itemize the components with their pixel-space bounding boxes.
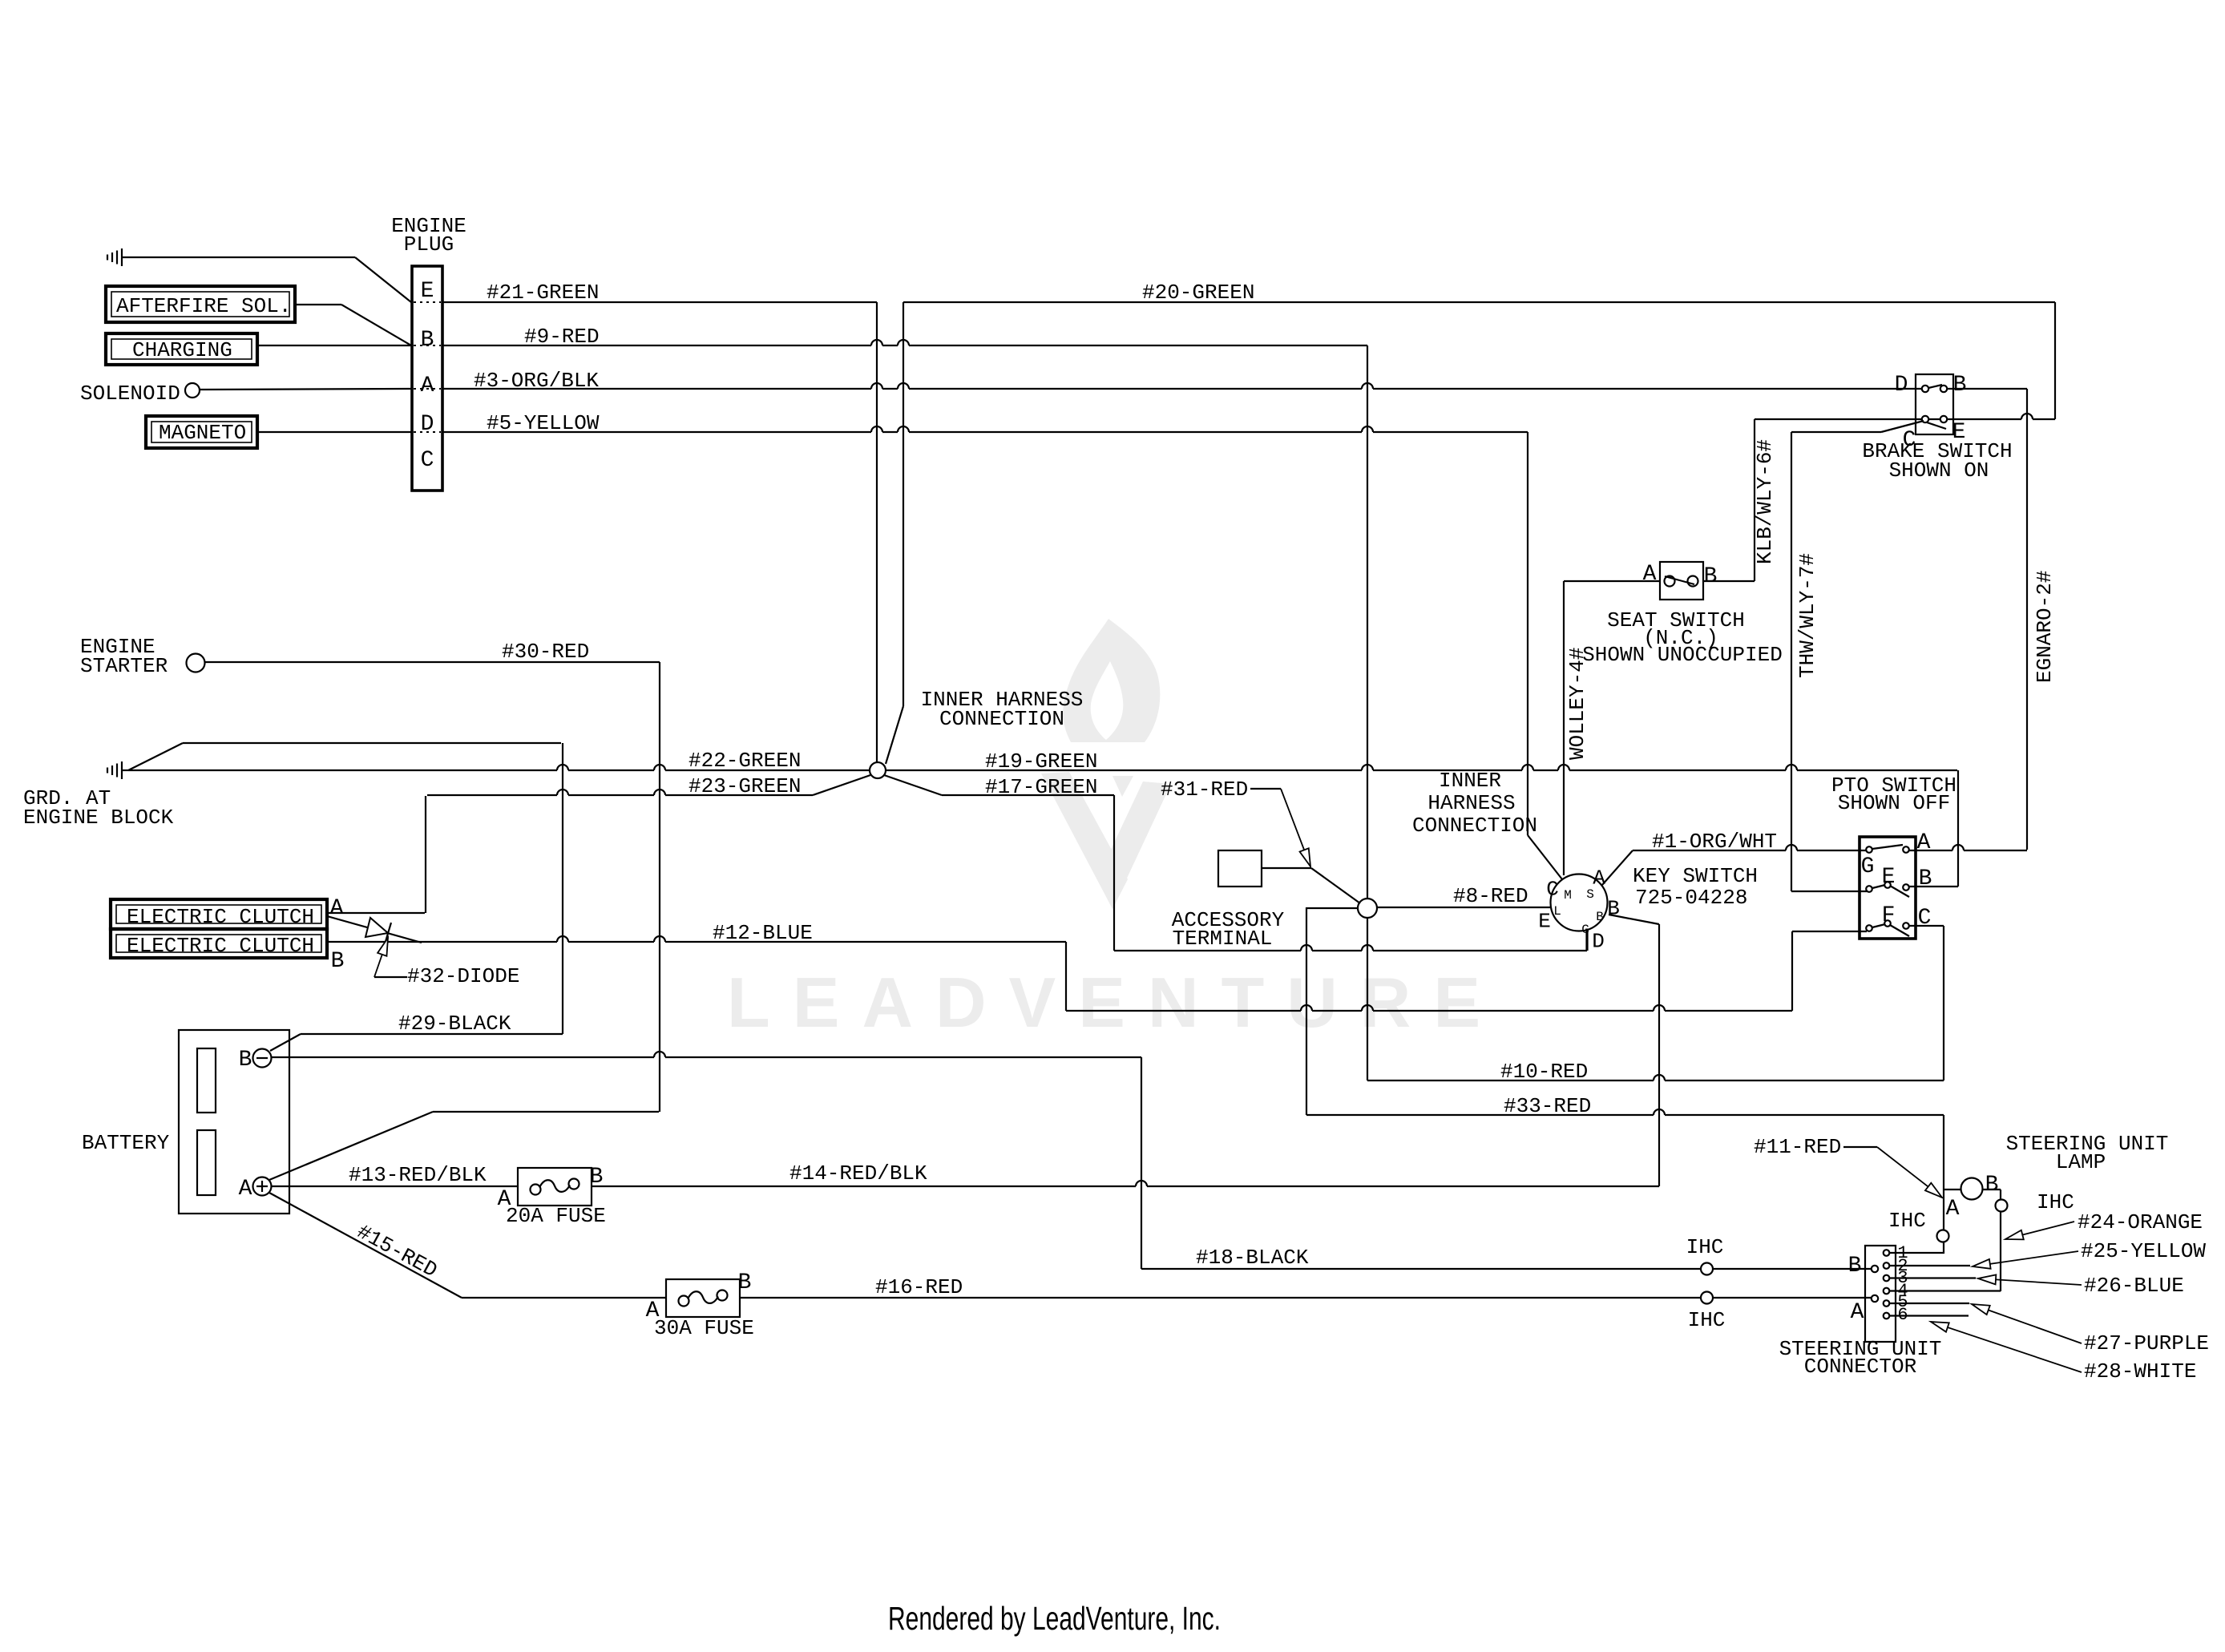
svg-text:E: E bbox=[1538, 909, 1551, 933]
svg-text:C: C bbox=[1918, 906, 1932, 931]
svg-text:D: D bbox=[1592, 929, 1605, 953]
svg-text:#21-GREEN: #21-GREEN bbox=[487, 281, 599, 305]
svg-text:A: A bbox=[239, 1177, 252, 1202]
svg-text:#17-GREEN: #17-GREEN bbox=[985, 775, 1097, 799]
svg-text:SHOWN OFF: SHOWN OFF bbox=[1838, 791, 1950, 815]
svg-text:G: G bbox=[1581, 923, 1589, 937]
svg-text:#27-PURPLE: #27-PURPLE bbox=[2084, 1331, 2209, 1355]
svg-text:AFTERFIRE SOL.: AFTERFIRE SOL. bbox=[116, 294, 291, 318]
svg-text:#19-GREEN: #19-GREEN bbox=[985, 749, 1097, 773]
svg-text:A: A bbox=[1917, 830, 1931, 855]
svg-text:B: B bbox=[1704, 564, 1718, 589]
svg-text:TERMINAL: TERMINAL bbox=[1173, 927, 1273, 951]
svg-text:D: D bbox=[421, 412, 434, 437]
svg-text:A: A bbox=[1946, 1197, 1960, 1222]
svg-text:20A FUSE: 20A FUSE bbox=[506, 1204, 606, 1228]
svg-text:B: B bbox=[239, 1048, 252, 1072]
svg-text:CONNECTION: CONNECTION bbox=[1412, 814, 1537, 838]
svg-text:IHC: IHC bbox=[1888, 1209, 1926, 1233]
svg-text:SHOWN ON: SHOWN ON bbox=[1889, 458, 1989, 483]
svg-text:A: A bbox=[330, 896, 344, 921]
svg-text:#5-YELLOW: #5-YELLOW bbox=[487, 411, 600, 435]
svg-text:A: A bbox=[1593, 866, 1605, 890]
svg-text:B: B bbox=[421, 328, 434, 353]
svg-text:#22-GREEN: #22-GREEN bbox=[688, 749, 801, 773]
svg-text:CONNECTOR: CONNECTOR bbox=[1804, 1355, 1916, 1379]
svg-text:#25-YELLOW: #25-YELLOW bbox=[2081, 1239, 2206, 1263]
svg-text:E: E bbox=[421, 279, 434, 304]
svg-text:THW/WLY-7#: THW/WLY-7# bbox=[1795, 553, 1819, 678]
svg-text:#29-BLACK: #29-BLACK bbox=[398, 1012, 511, 1036]
svg-text:#31-RED: #31-RED bbox=[1161, 778, 1248, 802]
svg-text:INNER: INNER bbox=[1439, 769, 1501, 793]
svg-text:A: A bbox=[498, 1187, 511, 1212]
svg-text:ELECTRIC CLUTCH: ELECTRIC CLUTCH bbox=[127, 934, 314, 958]
svg-text:WOLLEY-4#: WOLLEY-4# bbox=[1565, 648, 1589, 760]
svg-text:ELECTRIC CLUTCH: ELECTRIC CLUTCH bbox=[127, 905, 314, 929]
svg-text:C: C bbox=[1903, 428, 1916, 453]
svg-text:B: B bbox=[1953, 373, 1967, 398]
svg-text:#33-RED: #33-RED bbox=[1504, 1094, 1591, 1118]
svg-text:#12-BLUE: #12-BLUE bbox=[713, 921, 813, 945]
svg-text:#10-RED: #10-RED bbox=[1500, 1060, 1588, 1084]
svg-text:EGNARO-2#: EGNARO-2# bbox=[2033, 571, 2057, 683]
svg-text:#28-WHITE: #28-WHITE bbox=[2084, 1359, 2196, 1383]
svg-text:ENGINE BLOCK: ENGINE BLOCK bbox=[23, 806, 174, 830]
svg-text:#14-RED/BLK: #14-RED/BLK bbox=[789, 1161, 927, 1185]
svg-text:B: B bbox=[1848, 1254, 1862, 1278]
svg-text:IHC: IHC bbox=[1688, 1308, 1726, 1332]
svg-text:#3-ORG/BLK: #3-ORG/BLK bbox=[474, 369, 599, 393]
svg-text:30A FUSE: 30A FUSE bbox=[654, 1316, 754, 1340]
svg-text:B: B bbox=[331, 949, 345, 974]
svg-text:M: M bbox=[1564, 888, 1572, 903]
svg-text:LAMP: LAMP bbox=[2056, 1150, 2106, 1174]
svg-text:B: B bbox=[1596, 910, 1604, 924]
svg-text:LEADVENTURE: LEADVENTURE bbox=[727, 963, 1503, 1042]
svg-text:L: L bbox=[1553, 904, 1561, 919]
svg-text:#11-RED: #11-RED bbox=[1754, 1135, 1841, 1159]
svg-text:#24-ORANGE: #24-ORANGE bbox=[2078, 1210, 2203, 1234]
svg-text:KEY SWITCH: KEY SWITCH bbox=[1633, 864, 1758, 888]
svg-text:#32-DIODE: #32-DIODE bbox=[407, 964, 519, 988]
svg-text:#1-ORG/WHT: #1-ORG/WHT bbox=[1652, 830, 1777, 854]
svg-text:PLUG: PLUG bbox=[404, 232, 454, 256]
svg-text:SHOWN UNOCCUPIED: SHOWN UNOCCUPIED bbox=[1582, 643, 1783, 667]
svg-text:725-04228: 725-04228 bbox=[1635, 886, 1747, 910]
svg-text:#20-GREEN: #20-GREEN bbox=[1142, 281, 1254, 305]
svg-text:E: E bbox=[1882, 865, 1896, 890]
svg-text:SOLENOID: SOLENOID bbox=[80, 382, 180, 406]
svg-text:B: B bbox=[1919, 866, 1932, 891]
svg-text:#13-RED/BLK: #13-RED/BLK bbox=[349, 1163, 487, 1187]
svg-text:IHC: IHC bbox=[1686, 1235, 1724, 1259]
svg-text:#23-GREEN: #23-GREEN bbox=[688, 774, 801, 798]
svg-text:KLB/WLY-6#: KLB/WLY-6# bbox=[1753, 439, 1777, 564]
svg-text:B: B bbox=[1607, 896, 1620, 920]
svg-text:D: D bbox=[1895, 373, 1908, 398]
svg-text:G: G bbox=[1861, 854, 1875, 879]
svg-text:A: A bbox=[1643, 562, 1657, 587]
svg-text:S: S bbox=[1586, 887, 1594, 902]
svg-text:C: C bbox=[1546, 877, 1559, 901]
svg-text:B: B bbox=[1985, 1173, 1999, 1198]
svg-text:IHC: IHC bbox=[2037, 1190, 2074, 1214]
svg-text:CHARGING: CHARGING bbox=[132, 338, 232, 362]
svg-text:#16-RED: #16-RED bbox=[875, 1275, 963, 1299]
svg-text:BATTERY: BATTERY bbox=[82, 1131, 170, 1155]
svg-text:#8-RED: #8-RED bbox=[1453, 884, 1528, 908]
svg-text:C: C bbox=[421, 448, 434, 473]
svg-text:B: B bbox=[738, 1270, 752, 1295]
svg-text:#9-RED: #9-RED bbox=[524, 325, 600, 349]
svg-text:6: 6 bbox=[1897, 1305, 1908, 1325]
svg-text:#26-BLUE: #26-BLUE bbox=[2084, 1274, 2184, 1298]
svg-text:MAGNETO: MAGNETO bbox=[159, 421, 246, 445]
svg-text:F: F bbox=[1882, 903, 1896, 928]
svg-text:STARTER: STARTER bbox=[80, 654, 168, 678]
svg-text:B: B bbox=[590, 1165, 604, 1190]
svg-text:#30-RED: #30-RED bbox=[502, 640, 589, 664]
svg-text:E: E bbox=[1952, 420, 1966, 445]
svg-text:HARNESS: HARNESS bbox=[1427, 791, 1515, 815]
svg-text:A: A bbox=[1851, 1300, 1864, 1325]
svg-text:CONNECTION: CONNECTION bbox=[939, 707, 1064, 731]
svg-text:Rendered by LeadVenture, Inc.: Rendered by LeadVenture, Inc. bbox=[888, 1600, 1221, 1637]
svg-text:A: A bbox=[646, 1299, 660, 1323]
svg-text:A: A bbox=[421, 374, 434, 398]
svg-text:#18-BLACK: #18-BLACK bbox=[1196, 1246, 1309, 1270]
